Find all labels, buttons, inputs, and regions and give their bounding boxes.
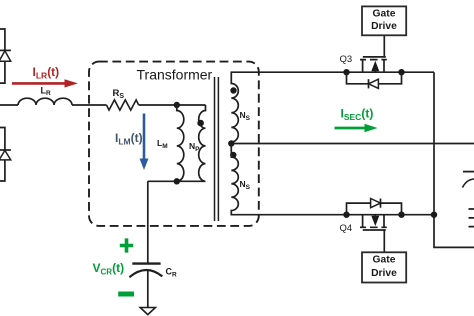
label CR [166,267,178,279]
svg-text:Drive: Drive [371,21,397,32]
polarity dot NS top [230,87,236,93]
inductor LM (magnetizing) [177,105,184,181]
wire primary bottom [148,180,206,182]
svg-text:ILR(t): ILR(t) [33,65,60,81]
svg-text:ISEC(t): ISEC(t) [341,107,374,123]
current arrow ISEC(t) [335,124,378,132]
label ILM(t) [115,131,143,147]
wire center tap to right edge [231,143,474,145]
node junction top of LM [174,102,180,108]
svg-text:Transformer: Transformer [137,67,213,83]
node output rail / Q4 junction [431,212,437,218]
label - polarity [118,292,134,297]
node junction bottom of LM [174,178,180,184]
svg-text:Drive: Drive [371,268,397,279]
wire Q4 gate lead [383,230,385,252]
partial output component (cut off at right edge) [463,172,474,227]
label Q3 [340,54,353,65]
svg-text:CR: CR [166,267,178,279]
winding NS bottom (secondary) [231,144,238,215]
label LM [157,138,168,150]
diode D1 (top-left, antiparallel diode of cut-off switch) [0,29,11,83]
body diode of Q4 [347,199,402,215]
svg-text:LR: LR [41,85,52,97]
label Q4 [340,223,353,234]
resistor RS [107,100,139,110]
gate drive box bottom [362,252,406,282]
body diode of Q3 [347,72,402,88]
transformer core [215,77,219,221]
transistor Q4 (MOSFET) [360,215,387,230]
label RS [113,88,125,100]
svg-text:VCR(t): VCR(t) [93,261,125,277]
svg-text:NS: NS [240,179,251,191]
label ILR(t) [33,65,60,81]
diode D2 (bottom-left, antiparallel diode of cut-off switch) [0,128,11,182]
label VCR(t) [93,261,125,277]
label NS top [240,110,251,122]
wire RS to primary [139,104,206,106]
label ISEC(t) [341,107,374,123]
wire output rail right [434,72,474,247]
gate drive box top [362,6,406,35]
svg-text:ILM(t): ILM(t) [115,131,143,147]
svg-text:Q4: Q4 [340,223,353,234]
svg-text:Gate: Gate [373,255,396,266]
wire secondary bottom rail [231,214,435,216]
wire secondary top rail [231,71,435,73]
label + polarity [120,238,133,252]
current arrow ILR(t) [12,79,78,87]
svg-text:Q3: Q3 [340,54,353,65]
label Transformer [137,67,213,83]
label LR [41,85,52,97]
wire capacitor to ground [147,270,149,307]
winding NP (primary) [199,105,206,181]
node Q4 right terminal [398,212,404,218]
ground [140,308,155,315]
label NP [189,141,200,153]
svg-text:LM: LM [157,138,168,150]
wire LR to RS [72,104,107,106]
polarity dot NS bottom [230,152,236,158]
svg-text:Gate: Gate [373,8,396,19]
svg-text:RS: RS [113,88,125,100]
polarity dot NP [197,120,204,127]
node Q3 right terminal [398,69,404,75]
svg-text:NP: NP [189,141,200,153]
svg-text:NS: NS [240,110,251,122]
node center tap [228,140,234,146]
current arrow ILM(t) [140,114,149,171]
winding NS top (secondary) [231,72,238,143]
node Q4 left terminal [343,212,349,218]
node Q3 left terminal [343,69,349,75]
transistor Q3 (MOSFET) [360,57,387,72]
wire Q3 gate lead [383,35,385,57]
wire input left [0,104,18,106]
transformer dashed enclosure box [89,62,259,226]
label NS bottom [240,179,251,191]
capacitor CR [129,264,162,278]
inductor LR [18,98,72,105]
wire down to resonant capacitor [147,181,149,263]
